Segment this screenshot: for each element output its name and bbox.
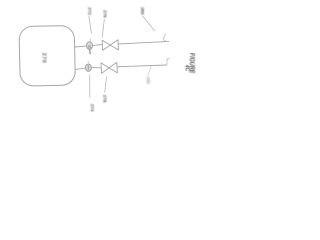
svg-text:270: 270 — [41, 53, 47, 63]
lower outlet squiggle — [167, 59, 169, 66]
leader to label 280 — [143, 16, 155, 31]
wire: lower pipe valve to outlet — [117, 65, 166, 67]
tick above lower pump — [87, 61, 89, 64]
svg-text:4C: 4C — [183, 64, 190, 72]
leader to label 276 — [102, 19, 104, 37]
wire: lower pipe pump to valve — [91, 67, 101, 69]
wire: upper pipe valve to outlet — [118, 41, 168, 44]
upper outlet squiggle — [163, 34, 166, 42]
svg-text:280: 280 — [139, 7, 145, 15]
svg-text:274: 274 — [89, 104, 95, 112]
valve V1 (upper bowtie) — [102, 40, 110, 50]
leader to label 282 — [148, 66, 151, 76]
pump P2 (lower circle) — [86, 64, 92, 71]
tick above upper pump — [89, 39, 91, 42]
chamber box 270 — [19, 25, 75, 86]
tick below upper pump — [89, 50, 91, 54]
wire: upper pipe pump to valve — [93, 44, 103, 47]
leader to label 278 — [105, 77, 107, 93]
leader to label 272 — [89, 16, 92, 33]
valve V2 (lower bowtie) — [101, 63, 109, 74]
svg-text:272: 272 — [86, 7, 92, 15]
svg-text:276: 276 — [102, 10, 108, 18]
leader to label 274 — [89, 76, 91, 98]
pump P1 (upper circle) — [87, 42, 93, 49]
svg-text:282: 282 — [145, 77, 151, 85]
svg-text:278: 278 — [101, 95, 107, 103]
wire: lower pipe from box to pump — [75, 68, 85, 69]
wire: upper pipe from box to pump — [75, 46, 86, 47]
